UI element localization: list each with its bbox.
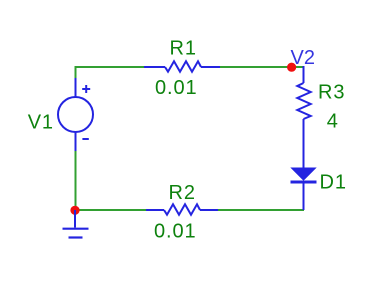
voltage source V1 bbox=[58, 78, 93, 151]
node V2 junction dot bbox=[287, 63, 296, 72]
wire left vertical lower segment bbox=[75, 151, 77, 210]
svg-text:R3: R3 bbox=[318, 82, 345, 104]
resistor R3 bbox=[297, 66, 310, 168]
svg-text:0.01: 0.01 bbox=[154, 221, 197, 243]
svg-text:R2: R2 bbox=[169, 182, 196, 204]
resistor R2 bbox=[146, 204, 218, 214]
svg-text:V1: V1 bbox=[28, 112, 54, 134]
wire top-left vertical stub bbox=[75, 66, 77, 78]
wire bottom horizontal right segment bbox=[218, 209, 304, 211]
svg-text:4: 4 bbox=[327, 111, 339, 133]
ground symbol bbox=[63, 210, 89, 238]
svg-text:D1: D1 bbox=[320, 172, 347, 194]
resistor R1 bbox=[144, 61, 220, 71]
svg-text:0.01: 0.01 bbox=[155, 77, 198, 99]
svg-text:V2: V2 bbox=[291, 47, 315, 69]
wire top horizontal left segment bbox=[75, 66, 145, 68]
wire bottom horizontal left segment bbox=[75, 209, 146, 211]
svg-text:R1: R1 bbox=[170, 38, 197, 60]
wire top horizontal right segment bbox=[219, 66, 304, 68]
ground junction dot bbox=[70, 206, 79, 215]
diode D1 bbox=[291, 168, 317, 210]
